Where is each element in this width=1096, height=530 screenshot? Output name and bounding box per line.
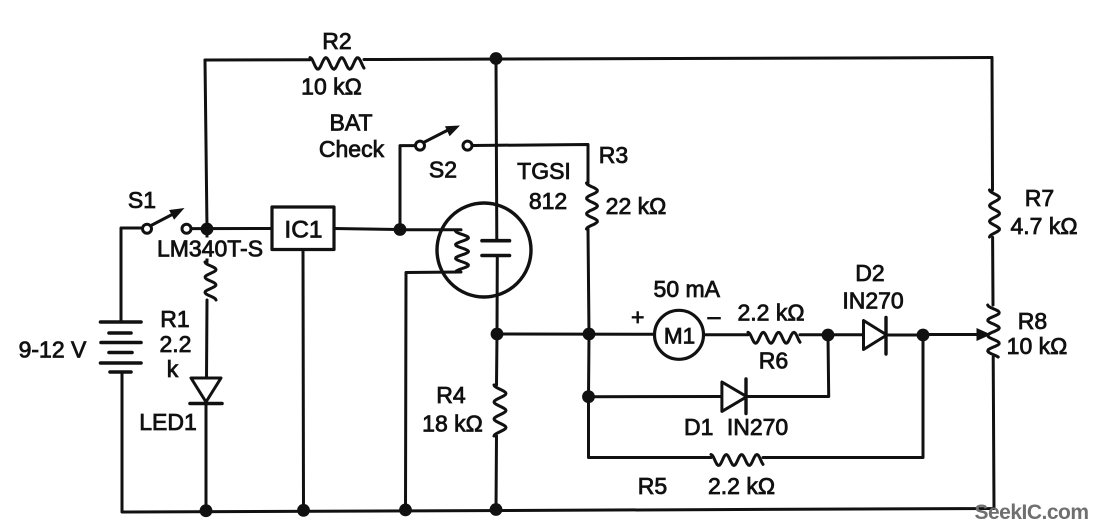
svg-text:2.2 kΩ: 2.2 kΩ [737,300,804,326]
svg-text:IC1: IC1 [284,217,322,244]
svg-text:R8: R8 [1018,308,1047,334]
svg-text:k: k [167,356,179,382]
svg-text:R6: R6 [759,348,788,374]
svg-text:M1: M1 [664,324,695,349]
svg-text:18 kΩ: 18 kΩ [422,411,483,437]
svg-text:R2: R2 [322,28,351,54]
svg-text:LED1: LED1 [139,409,197,435]
svg-text:D1: D1 [684,414,713,440]
svg-text:4.7 kΩ: 4.7 kΩ [1010,213,1077,239]
svg-text:R5: R5 [638,473,667,499]
svg-text:2.2 kΩ: 2.2 kΩ [708,473,775,499]
svg-text:R3: R3 [599,142,628,168]
svg-text:S1: S1 [128,187,156,213]
svg-text:LM340T-S: LM340T-S [157,236,263,262]
svg-text:IN270: IN270 [727,414,788,440]
svg-text:10 kΩ: 10 kΩ [301,74,362,100]
svg-text:Check: Check [319,136,385,162]
svg-text:S2: S2 [429,157,457,183]
svg-text:812: 812 [529,188,567,214]
svg-text:2.2: 2.2 [160,331,192,357]
svg-text:R4: R4 [436,382,466,408]
svg-text:SeekIC.com: SeekIC.com [974,501,1088,524]
svg-text:22 kΩ: 22 kΩ [606,193,667,219]
svg-text:10 kΩ: 10 kΩ [1007,333,1068,359]
svg-text:D2: D2 [855,260,884,286]
svg-text:BAT: BAT [329,110,372,136]
svg-text:–: – [708,303,721,329]
svg-text:R1: R1 [160,306,189,332]
svg-text:R7: R7 [1025,185,1054,211]
svg-text:TGSI: TGSI [517,158,571,184]
svg-text:50 mA: 50 mA [654,276,721,302]
svg-text:IN270: IN270 [842,288,903,314]
svg-text:9-12 V: 9-12 V [19,337,87,363]
svg-text:+: + [631,304,644,330]
